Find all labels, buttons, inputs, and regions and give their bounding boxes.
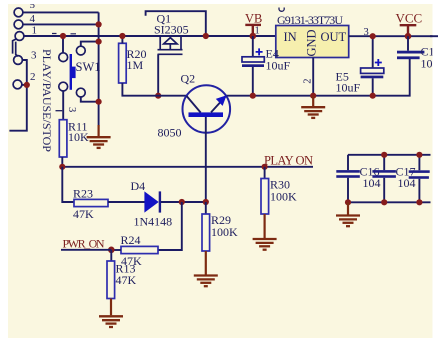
wire Q1 drain bypass — [146, 11, 206, 36]
svg-text:1: 1 — [255, 26, 260, 37]
svg-text:8050: 8050 — [158, 126, 182, 140]
junction D4 / R24 feed — [179, 199, 185, 205]
svg-text:3: 3 — [66, 107, 77, 112]
Q2 collector line — [187, 96, 201, 113]
junction PWR_ON / R13 / R24 — [108, 247, 115, 254]
resistor R29 — [205, 202, 207, 214]
junction GND pin / rail — [310, 93, 316, 99]
svg-text:VCC: VCC — [396, 11, 423, 26]
transistor Q2 circle — [183, 85, 231, 133]
wire SW1 top-left feed — [62, 36, 64, 52]
wire R24 feed from D4 — [158, 202, 182, 250]
wire vertical bus x=98.6 — [98, 12, 100, 101]
junction bus-SW1 bottom — [96, 99, 102, 105]
wire R11 bottom — [61, 157, 63, 167]
wire SW1 bottom-left to R11 — [62, 91, 64, 120]
regulator U1 partial designator — [279, 8, 284, 12]
junction bus-SW1 top — [96, 39, 102, 45]
connector jack pin 2 circle — [13, 80, 22, 89]
junction VB net / SW1 feed — [60, 33, 66, 39]
junction VCC / C15 — [405, 33, 412, 40]
junction E4 bottom — [250, 93, 256, 99]
svg-text:47K: 47K — [73, 207, 94, 221]
op-amp U1 regulator box — [276, 26, 349, 58]
wire jack pin3 net — [9, 60, 26, 131]
wire base rail right (Q2 to C15 corner) — [226, 59, 410, 96]
connector jack pin 4 circle — [14, 20, 23, 29]
wire SW1 bottom-right to bus — [81, 97, 99, 102]
svg-text:SI2305: SI2305 — [154, 22, 189, 36]
wire C16/C17 top rail — [348, 154, 431, 156]
svg-text:47K: 47K — [116, 273, 137, 287]
ground below U1 — [312, 96, 314, 107]
switch SW1 actuator bar — [70, 54, 72, 90]
connector jack pin 3 circle — [14, 56, 23, 65]
diode D4 — [144, 191, 158, 212]
svg-text:VB: VB — [245, 12, 262, 26]
transistor Q1 MOSFET symbol — [158, 36, 183, 54]
wire R23 to D4 — [108, 201, 145, 203]
svg-text:R23: R23 — [73, 186, 93, 200]
junction C18 bottom — [416, 199, 422, 205]
capacitor E4 (electrolytic) — [252, 36, 254, 57]
svg-text:G9131-33T73U: G9131-33T73U — [277, 13, 343, 27]
ground below C16 rail — [347, 202, 349, 214]
wire pin4 to bus — [23, 23, 99, 25]
Q2 emitter arrow — [216, 95, 227, 106]
junction C17 top — [381, 152, 387, 158]
svg-text:1N4148: 1N4148 — [134, 215, 173, 229]
junction E5 top — [370, 33, 376, 39]
R11 sideways pin 1 tick — [56, 110, 63, 112]
junction C18 top — [416, 152, 422, 158]
ground below R29 — [205, 251, 207, 275]
resistor R20 body — [119, 43, 127, 83]
capacitor C16 — [347, 155, 349, 203]
svg-text:3: 3 — [364, 27, 369, 38]
white page margins — [0, 0, 438, 4]
junction pin2 net — [24, 82, 30, 88]
wire pin5 to vertical bus — [24, 11, 99, 13]
svg-text:2: 2 — [303, 79, 314, 84]
wire R20 top lead — [121, 36, 123, 43]
wire U1 OUT to VCC rail — [349, 35, 433, 37]
junction VB / E4 — [250, 33, 257, 40]
svg-text:4: 4 — [30, 13, 36, 25]
svg-text:100K: 100K — [211, 225, 238, 239]
wire base rail left (R20 bottom to Q2) — [122, 83, 186, 96]
wire Q1 gate down — [157, 54, 159, 95]
svg-text:100K: 100K — [270, 190, 297, 204]
junction R30 / PLAY ON — [262, 164, 268, 170]
wire PWR_ON stub — [61, 249, 111, 251]
svg-text:IN: IN — [284, 30, 297, 44]
ground below SW1 bus — [87, 137, 111, 148]
capacitor E5 (electrolytic) — [372, 36, 374, 68]
svg-text:10uF: 10uF — [336, 80, 361, 94]
junction R20 top — [119, 33, 125, 39]
svg-text:PLAY/PAUSE/STOP: PLAY/PAUSE/STOP — [40, 49, 54, 152]
svg-text:1: 1 — [32, 25, 38, 37]
svg-text:SW1: SW1 — [76, 60, 101, 74]
svg-text:PLAY ON: PLAY ON — [264, 153, 313, 167]
wire VCC rail overlapping right margin — [430, 35, 438, 37]
svg-text:10uF: 10uF — [266, 59, 291, 73]
resistor R23 — [74, 199, 108, 206]
svg-text:104: 104 — [363, 176, 381, 190]
svg-text:R24: R24 — [121, 233, 141, 247]
junction bus-pin4 — [96, 21, 102, 27]
connector jack pin 1 circle — [15, 32, 24, 41]
svg-text:1M: 1M — [127, 58, 144, 72]
junction gate / base rail — [155, 93, 161, 99]
wire PLAY ON down to R23 — [62, 167, 74, 202]
switch SW1 contact circles — [59, 53, 68, 62]
junction E5 bottom — [370, 93, 376, 99]
resistor R30 — [264, 167, 266, 179]
svg-text:Q2: Q2 — [181, 71, 196, 85]
junction base line / R29 — [203, 199, 209, 205]
resistor R13 — [110, 250, 112, 261]
wire SW1 top-right to bus — [81, 42, 99, 47]
svg-text:GND: GND — [304, 29, 318, 56]
Q2 base bar — [189, 112, 224, 117]
svg-text:OUT: OUT — [321, 30, 347, 44]
wire Q2 base down — [205, 117, 207, 202]
svg-text:D4: D4 — [131, 179, 146, 193]
wire U1 GND pin down — [312, 58, 314, 96]
wire VB net horizontal y=36 — [24, 35, 276, 37]
junction Q1 bypass right — [203, 33, 209, 39]
svg-text:3: 3 — [31, 50, 37, 62]
jack plug contact symbol — [13, 39, 17, 54]
SW1 pin number ticks — [52, 33, 76, 35]
wire R24 left lead — [111, 249, 121, 251]
wire PLAY ON rail — [62, 166, 313, 168]
wire jack pin2 stub — [22, 84, 27, 86]
Q2 emitter line — [211, 96, 226, 112]
junction C16 bottom — [345, 199, 351, 205]
svg-text:10K: 10K — [68, 130, 89, 144]
resistor R24 — [121, 246, 158, 253]
wire D4 cathode to R29 — [161, 201, 206, 203]
connector jack pin 5 circle — [14, 8, 23, 17]
capacitor C15 — [407, 36, 409, 51]
svg-text:2: 2 — [30, 71, 36, 83]
resistor R11 body — [59, 120, 67, 157]
wire bus down to ground — [98, 102, 100, 126]
junction C17 bottom — [381, 199, 387, 205]
wire C16/C17 bottom rail — [348, 201, 431, 203]
junction R11 / PLAY ON — [59, 164, 65, 170]
capacitor C18 (unlabeled, at edge) — [418, 155, 420, 203]
svg-text:PWR_ON: PWR_ON — [63, 236, 105, 250]
ground below R30 — [264, 214, 266, 238]
capacitor C17 — [383, 155, 385, 203]
ground below R13 — [110, 299, 112, 316]
